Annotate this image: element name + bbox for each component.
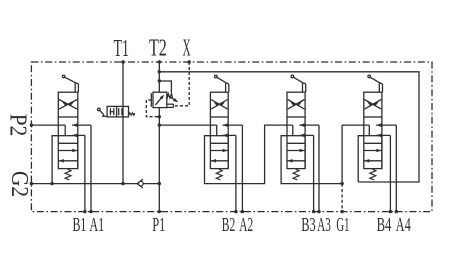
svg-text:B2: B2: [222, 214, 235, 236]
wire G2 return gallery: [31, 183, 159, 185]
valve V2 crossed position box: [210, 92, 228, 117]
node V1 port A: [89, 210, 92, 213]
valve V4 crossed position box: [364, 92, 382, 117]
wire section2 carryover loop: [205, 125, 293, 184]
node V2 port A: [241, 210, 244, 213]
node P1 gallery junction: [158, 182, 161, 185]
valve V3 port A wire: [299, 123, 319, 211]
valve V2 return spring: [216, 169, 222, 180]
check valve seat: [137, 179, 143, 188]
valve V2 port A wire: [222, 123, 242, 211]
svg-text:A2: A2: [239, 214, 253, 236]
node V4 port B: [389, 210, 392, 213]
svg-text:B3: B3: [301, 214, 316, 236]
node P2 port on border: [30, 123, 33, 126]
node V3 port B: [312, 210, 315, 213]
enclosure border (dash-dot): [31, 62, 432, 212]
relief valve drain pilot wire (dashed): [146, 100, 159, 117]
node T1 gallery junction: [121, 182, 124, 185]
valve V2 body side rails: [210, 117, 228, 169]
valve V2 crossed arrows: [211, 100, 227, 110]
wire T1 line: [122, 62, 124, 184]
node G1 gallery junction: [340, 182, 343, 185]
wire section3 carryover loop: [281, 136, 342, 184]
svg-text:P2: P2: [5, 114, 31, 137]
wire P1/T2 riser upper: [158, 62, 160, 92]
valve V1 return spring: [65, 169, 71, 180]
valve V1 body side rails: [58, 117, 78, 169]
valve V3 lever: [291, 75, 306, 92]
wire section1 parallel branch: [52, 136, 58, 184]
valve V1 spool box: [58, 136, 78, 169]
node T1 on border: [121, 60, 124, 63]
node X on border: [188, 60, 191, 63]
valve V4 port B wire: [376, 134, 390, 212]
valve V3 return spring: [293, 169, 299, 180]
valve V4 P inlet jog: [368, 125, 370, 136]
svg-text:A4: A4: [396, 214, 411, 236]
valve V3 port B wire: [299, 134, 313, 212]
svg-text:P1: P1: [152, 214, 165, 236]
svg-text:T2: T2: [149, 35, 167, 61]
shutoff valve lever: [98, 108, 108, 116]
node V3 port A: [317, 210, 320, 213]
valve V3 body side rails: [287, 117, 305, 169]
valve V2 port B wire: [222, 134, 236, 212]
wire section4 bypass left leg: [358, 136, 364, 182]
valve V4 lever: [368, 75, 383, 92]
relief valve pilot stub: [150, 93, 152, 107]
valve V4 return spring: [370, 169, 376, 180]
valve V1 crossed position box: [58, 92, 78, 117]
wire P supply to section 2: [159, 124, 216, 126]
valve V1 spool passages: [58, 143, 78, 162]
svg-text:B4: B4: [377, 214, 392, 236]
node P1 port: [158, 210, 161, 213]
valve V4 spool passages: [364, 143, 382, 162]
pilot port X wire (dashed): [174, 62, 190, 106]
valve V1 crossed arrows: [59, 100, 77, 110]
relief valve internal arrow: [155, 94, 165, 105]
valve V3 spool box: [287, 136, 305, 169]
shutoff valve closed symbol: [110, 108, 113, 115]
valve V4 spool box: [364, 136, 382, 169]
valve V1 lever: [62, 75, 78, 92]
wire P1/T2 riser lower: [158, 108, 160, 212]
svg-text:B1: B1: [72, 214, 86, 236]
valve V3 crossed position box: [287, 92, 305, 117]
valve V4 crossed arrows: [365, 100, 382, 110]
shutoff valve spring: [129, 113, 135, 116]
valve V3 crossed arrows: [288, 100, 305, 110]
valve V4 body side rails: [364, 117, 382, 169]
svg-text:A3: A3: [317, 214, 331, 236]
svg-text:A1: A1: [89, 214, 104, 236]
valve V3 P inlet jog: [292, 125, 294, 136]
node G1 port: [340, 210, 343, 213]
svg-text:T1: T1: [114, 36, 129, 62]
relief valve outlet stub: [167, 104, 174, 107]
node section1 branch junction: [50, 182, 53, 185]
node P junction to valves: [158, 123, 161, 126]
valve V2 spool box: [210, 136, 228, 169]
valve V2 P inlet jog: [216, 125, 218, 136]
node V1 port B: [83, 210, 86, 213]
relief valve adjustment arrow: [167, 95, 179, 104]
node T2 on border: [158, 60, 161, 63]
svg-text:X: X: [183, 36, 191, 62]
wire P supply to section 4: [342, 124, 369, 126]
node drain junction: [158, 115, 161, 118]
wire tank return line to right side: [159, 72, 419, 182]
valve V1 port B wire: [72, 134, 85, 212]
valve V1 P inlet jog: [64, 125, 66, 136]
node V4 port A: [395, 210, 398, 213]
node V2 port B: [234, 210, 237, 213]
svg-text:G2: G2: [6, 171, 32, 197]
relief valve body: [153, 92, 167, 107]
relief valve top loop wire: [159, 81, 171, 93]
valve V2 spool passages: [210, 143, 228, 162]
relief valve spring: [167, 93, 173, 99]
shutoff valve open symbol: [119, 108, 122, 115]
shutoff valve body: [107, 106, 128, 117]
svg-text:G1: G1: [336, 214, 349, 236]
valve V4 port A wire: [376, 123, 396, 211]
wire G1 riser upper: [341, 125, 343, 184]
valve V3 spool passages: [287, 143, 305, 162]
node tank line junction: [158, 70, 161, 73]
valve V1 port A wire: [72, 123, 91, 211]
wire G1 riser lower (dashed): [341, 184, 343, 212]
valve V2 lever: [215, 75, 229, 92]
wire P2 supply: [31, 124, 65, 126]
node G2 port on border: [30, 182, 33, 185]
node relief top junction: [158, 79, 161, 82]
check valve ball: [139, 181, 144, 186]
